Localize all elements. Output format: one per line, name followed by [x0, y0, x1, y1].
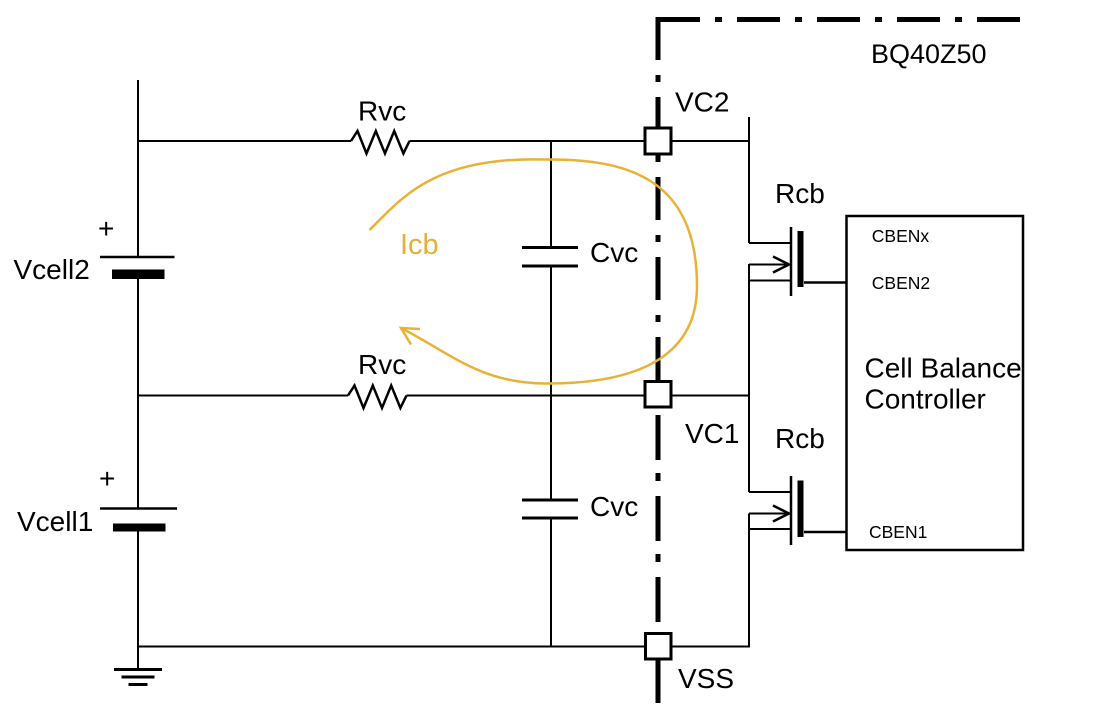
- svg-text:Vcell1: Vcell1: [17, 506, 93, 537]
- battery Vcell1 positive plate: [100, 507, 177, 510]
- battery Vcell2 positive plate: [100, 256, 175, 259]
- svg-text:Icb: Icb: [400, 229, 439, 261]
- wire: VC1 row middle segment: [407, 395, 645, 397]
- capacitor Cvc (bottom): [522, 500, 578, 518]
- svg-text:Rcb: Rcb: [775, 178, 825, 209]
- wire: between cells vertical: [137, 279, 139, 508]
- wire: VC2 pin to FET1 drain column: [672, 140, 750, 142]
- svg-text:VSS: VSS: [678, 663, 734, 694]
- wire: FET1 source to FET2 drain vertical: [748, 264, 750, 492]
- svg-text:+: +: [98, 213, 114, 244]
- wire: VC2 row left segment: [137, 140, 351, 142]
- pin VSS: [646, 634, 672, 660]
- pin VC1: [645, 382, 671, 408]
- wire: battery stack top vertical: [137, 80, 139, 256]
- wire: Cvc column upper: [550, 141, 552, 247]
- svg-text:Cvc: Cvc: [590, 491, 638, 522]
- svg-text:Rvc: Rvc: [358, 349, 406, 380]
- svg-text:CBENx: CBENx: [872, 226, 930, 246]
- svg-text:VC1: VC1: [685, 418, 739, 449]
- svg-text:CBEN2: CBEN2: [872, 273, 930, 293]
- wire: FET2 source to VSS rail vertical: [748, 514, 750, 647]
- svg-text:Cell Balance: Cell Balance: [865, 353, 1022, 384]
- wire: VC2 row middle segment: [410, 140, 645, 142]
- wire: VSS pin to FET column: [672, 646, 750, 648]
- ground: [114, 647, 162, 685]
- battery Vcell2 negative plate: [112, 270, 165, 280]
- wire: cell1 negative to bottom rail: [137, 531, 139, 647]
- svg-text:Rcb: Rcb: [775, 423, 825, 454]
- battery Vcell1 negative plate: [113, 524, 166, 532]
- svg-text:BQ40Z50: BQ40Z50: [871, 39, 987, 69]
- svg-text:Controller: Controller: [865, 384, 986, 415]
- wire: Cvc column lower: [550, 518, 552, 647]
- svg-text:Rvc: Rvc: [358, 96, 406, 127]
- wire: VC1 row left segment: [137, 395, 348, 397]
- BQ40Z50 device boundary dash-dot vertical: [656, 17, 661, 395]
- wire: VC1 pin to FET column: [672, 395, 750, 397]
- resistor Rvc (top): [351, 131, 410, 154]
- svg-text:VC2: VC2: [675, 87, 729, 118]
- svg-text:Vcell2: Vcell2: [14, 254, 90, 285]
- Cell Balance Controller box U1: [847, 216, 1024, 550]
- wire: FET1 drain column vertical: [748, 117, 750, 243]
- svg-text:Cvc: Cvc: [590, 237, 638, 268]
- wire: Cvc column middle: [550, 266, 552, 500]
- svg-text:+: +: [99, 463, 115, 494]
- BQ40Z50 device boundary dash-dot horizontal: [657, 17, 1021, 22]
- capacitor Cvc (top): [522, 248, 578, 267]
- current loop Icb (gold arrow): [369, 159, 697, 383]
- transistor Q2 (lower cell balance FET): [749, 476, 847, 545]
- wire: bottom rail left of VSS: [137, 646, 645, 648]
- svg-text:CBEN1: CBEN1: [869, 522, 927, 542]
- resistor Rvc (bottom): [348, 386, 407, 409]
- transistor Q1 (upper cell balance FET): [749, 227, 847, 296]
- pin VC2: [645, 128, 671, 154]
